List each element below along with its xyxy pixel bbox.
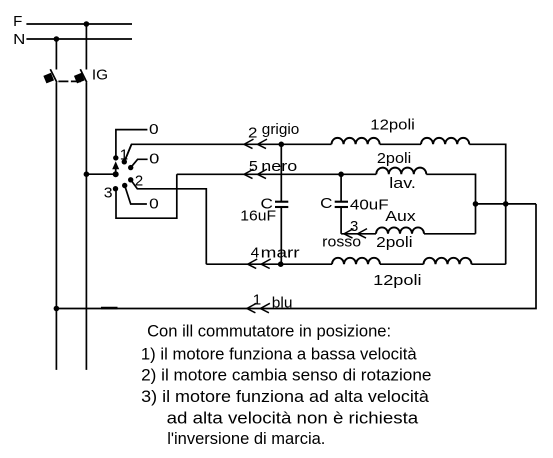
wire winding common to outer drop (476, 203, 537, 205)
wire nero to lav-aux junction drop (426, 174, 475, 234)
wire N vertical below IG (55, 82, 57, 370)
contact dot position 0 mid (128, 165, 133, 170)
commutator contact 1 link to grigio wire (124, 144, 131, 162)
arrow pair on blu wire (247, 303, 257, 313)
inductor 2poli lav winding (376, 168, 426, 175)
svg-text:3: 3 (104, 185, 113, 202)
svg-text:16uF: 16uF (240, 208, 276, 225)
wire F drop to switch IG (85, 24, 87, 70)
svg-text:nero: nero (261, 158, 297, 175)
wire N supply line (26, 38, 132, 40)
junction dot N line (54, 36, 60, 42)
contact dot position 1 (122, 159, 127, 164)
svg-text:0: 0 (149, 195, 159, 212)
wire 4 marr (206, 263, 332, 265)
svg-text:marr: marr (261, 245, 300, 262)
svg-text:3) il motore funziona ad alta: 3) il motore funziona ad alta velocità (141, 387, 430, 406)
svg-text:1) il motore funziona a bassa: 1) il motore funziona a bassa velocità (141, 345, 417, 364)
svg-text:ad alta velocità non è richies: ad alta velocità non è richiesta (167, 408, 419, 427)
svg-text:IG: IG (92, 66, 108, 83)
commutator contact 3 link to nero wire (116, 174, 177, 218)
arrow pair on rosso wire (344, 229, 354, 239)
junction dot marr-C16 (278, 261, 284, 267)
svg-text:2poli: 2poli (377, 150, 411, 167)
switch IG contact block F pole (74, 73, 85, 84)
svg-text:1: 1 (120, 147, 128, 164)
capacitor C16 bottom lead (280, 208, 282, 265)
svg-text:blu: blu (272, 295, 293, 312)
contact dot position 0 bottom (122, 183, 127, 188)
capacitor C40 top lead (340, 174, 342, 201)
switch IG blade F pole (80, 69, 87, 82)
svg-text:N: N (13, 31, 25, 48)
svg-text:rosso: rosso (322, 233, 361, 250)
wire marr between coils (380, 263, 424, 265)
wire grigio to right drop (469, 144, 505, 264)
svg-text:2poli: 2poli (376, 234, 413, 251)
contact dot position 2 (128, 177, 133, 182)
wire rosso to lav-aux junction (424, 233, 476, 235)
wire commutator pole feed (86, 173, 115, 175)
wire F supply line (26, 23, 132, 25)
commutator contact 0 top bracket (116, 130, 147, 158)
junction dot grigio-C16 (279, 142, 285, 148)
svg-text:F: F (13, 13, 22, 30)
svg-text:l'inversione di marcia.: l'inversione di marcia. (167, 429, 325, 448)
capacitor C40 plates (335, 201, 348, 203)
svg-text:12poli: 12poli (373, 272, 422, 289)
svg-text:0: 0 (149, 150, 159, 167)
commutator contact 2 link to marr wire (131, 180, 207, 264)
wire F vertical below IG (85, 82, 87, 370)
wire blu overdraw segment (101, 307, 118, 309)
wire N drop to switch IG (55, 39, 57, 70)
commutator pole dot (113, 171, 119, 177)
commutator wiper arrowhead (112, 161, 119, 169)
inductor 12poli lower left half (332, 258, 380, 264)
contact dot position 0 top (113, 155, 118, 160)
switch IG blade N pole (50, 69, 57, 82)
svg-text:grigio: grigio (262, 121, 300, 138)
wire 5 nero (177, 173, 376, 175)
svg-text:4: 4 (251, 245, 260, 262)
svg-text:12poli: 12poli (370, 117, 415, 134)
wire outer right drop and 1 blu (56, 204, 536, 309)
junction dot lav-aux common (473, 201, 479, 207)
svg-text:Con ill commutatore in posizio: Con ill commutatore in posizione: (147, 322, 391, 341)
switch IG contact block N pole (43, 73, 54, 84)
arrow pair on nero wire (244, 169, 254, 179)
junction dot commutator feed (84, 171, 90, 177)
inductor 2poli Aux winding (376, 227, 424, 233)
arrow pair on marr wire (248, 259, 258, 269)
commutator contact 0 mid stub (131, 159, 148, 167)
wire marr to right vertical (472, 263, 506, 265)
arrow pair on grigio wire (244, 139, 254, 149)
svg-text:2: 2 (135, 173, 143, 190)
svg-text:40uF: 40uF (350, 196, 389, 213)
capacitor C16 top lead (280, 144, 282, 201)
junction dot blu-N (54, 306, 60, 312)
svg-text:lav.: lav. (389, 175, 416, 192)
svg-text:5: 5 (249, 158, 258, 175)
switch IG mechanical link (dashed) (58, 80, 81, 82)
wire 2 grigio (124, 144, 331, 162)
svg-text:Aux: Aux (385, 208, 416, 225)
inductor 12poli lower right half (424, 258, 472, 264)
svg-text:2) il motore cambia senso di r: 2) il motore cambia senso di rotazione (141, 366, 431, 385)
wire grigio between coils (380, 143, 421, 145)
svg-text:0: 0 (149, 121, 159, 138)
commutator contact 0 bottom stub (125, 186, 147, 205)
junction dot nero-C40 (338, 172, 344, 178)
junction dot F line (84, 21, 90, 27)
svg-text:1: 1 (253, 292, 261, 309)
inductor 12poli upper right half (421, 138, 469, 144)
contact dot position 3 (113, 186, 118, 191)
note text block (141, 322, 432, 448)
capacitor C16 plates (275, 201, 288, 203)
svg-text:2: 2 (248, 124, 257, 141)
commutator wiper shaft (115, 169, 117, 174)
inductor 12poli upper left half (332, 138, 380, 144)
wire 3 rosso (341, 233, 376, 235)
svg-text:C: C (320, 195, 332, 212)
capacitor C40 bottom lead (340, 208, 342, 234)
junction dot 12poli mid vertical (503, 201, 509, 207)
